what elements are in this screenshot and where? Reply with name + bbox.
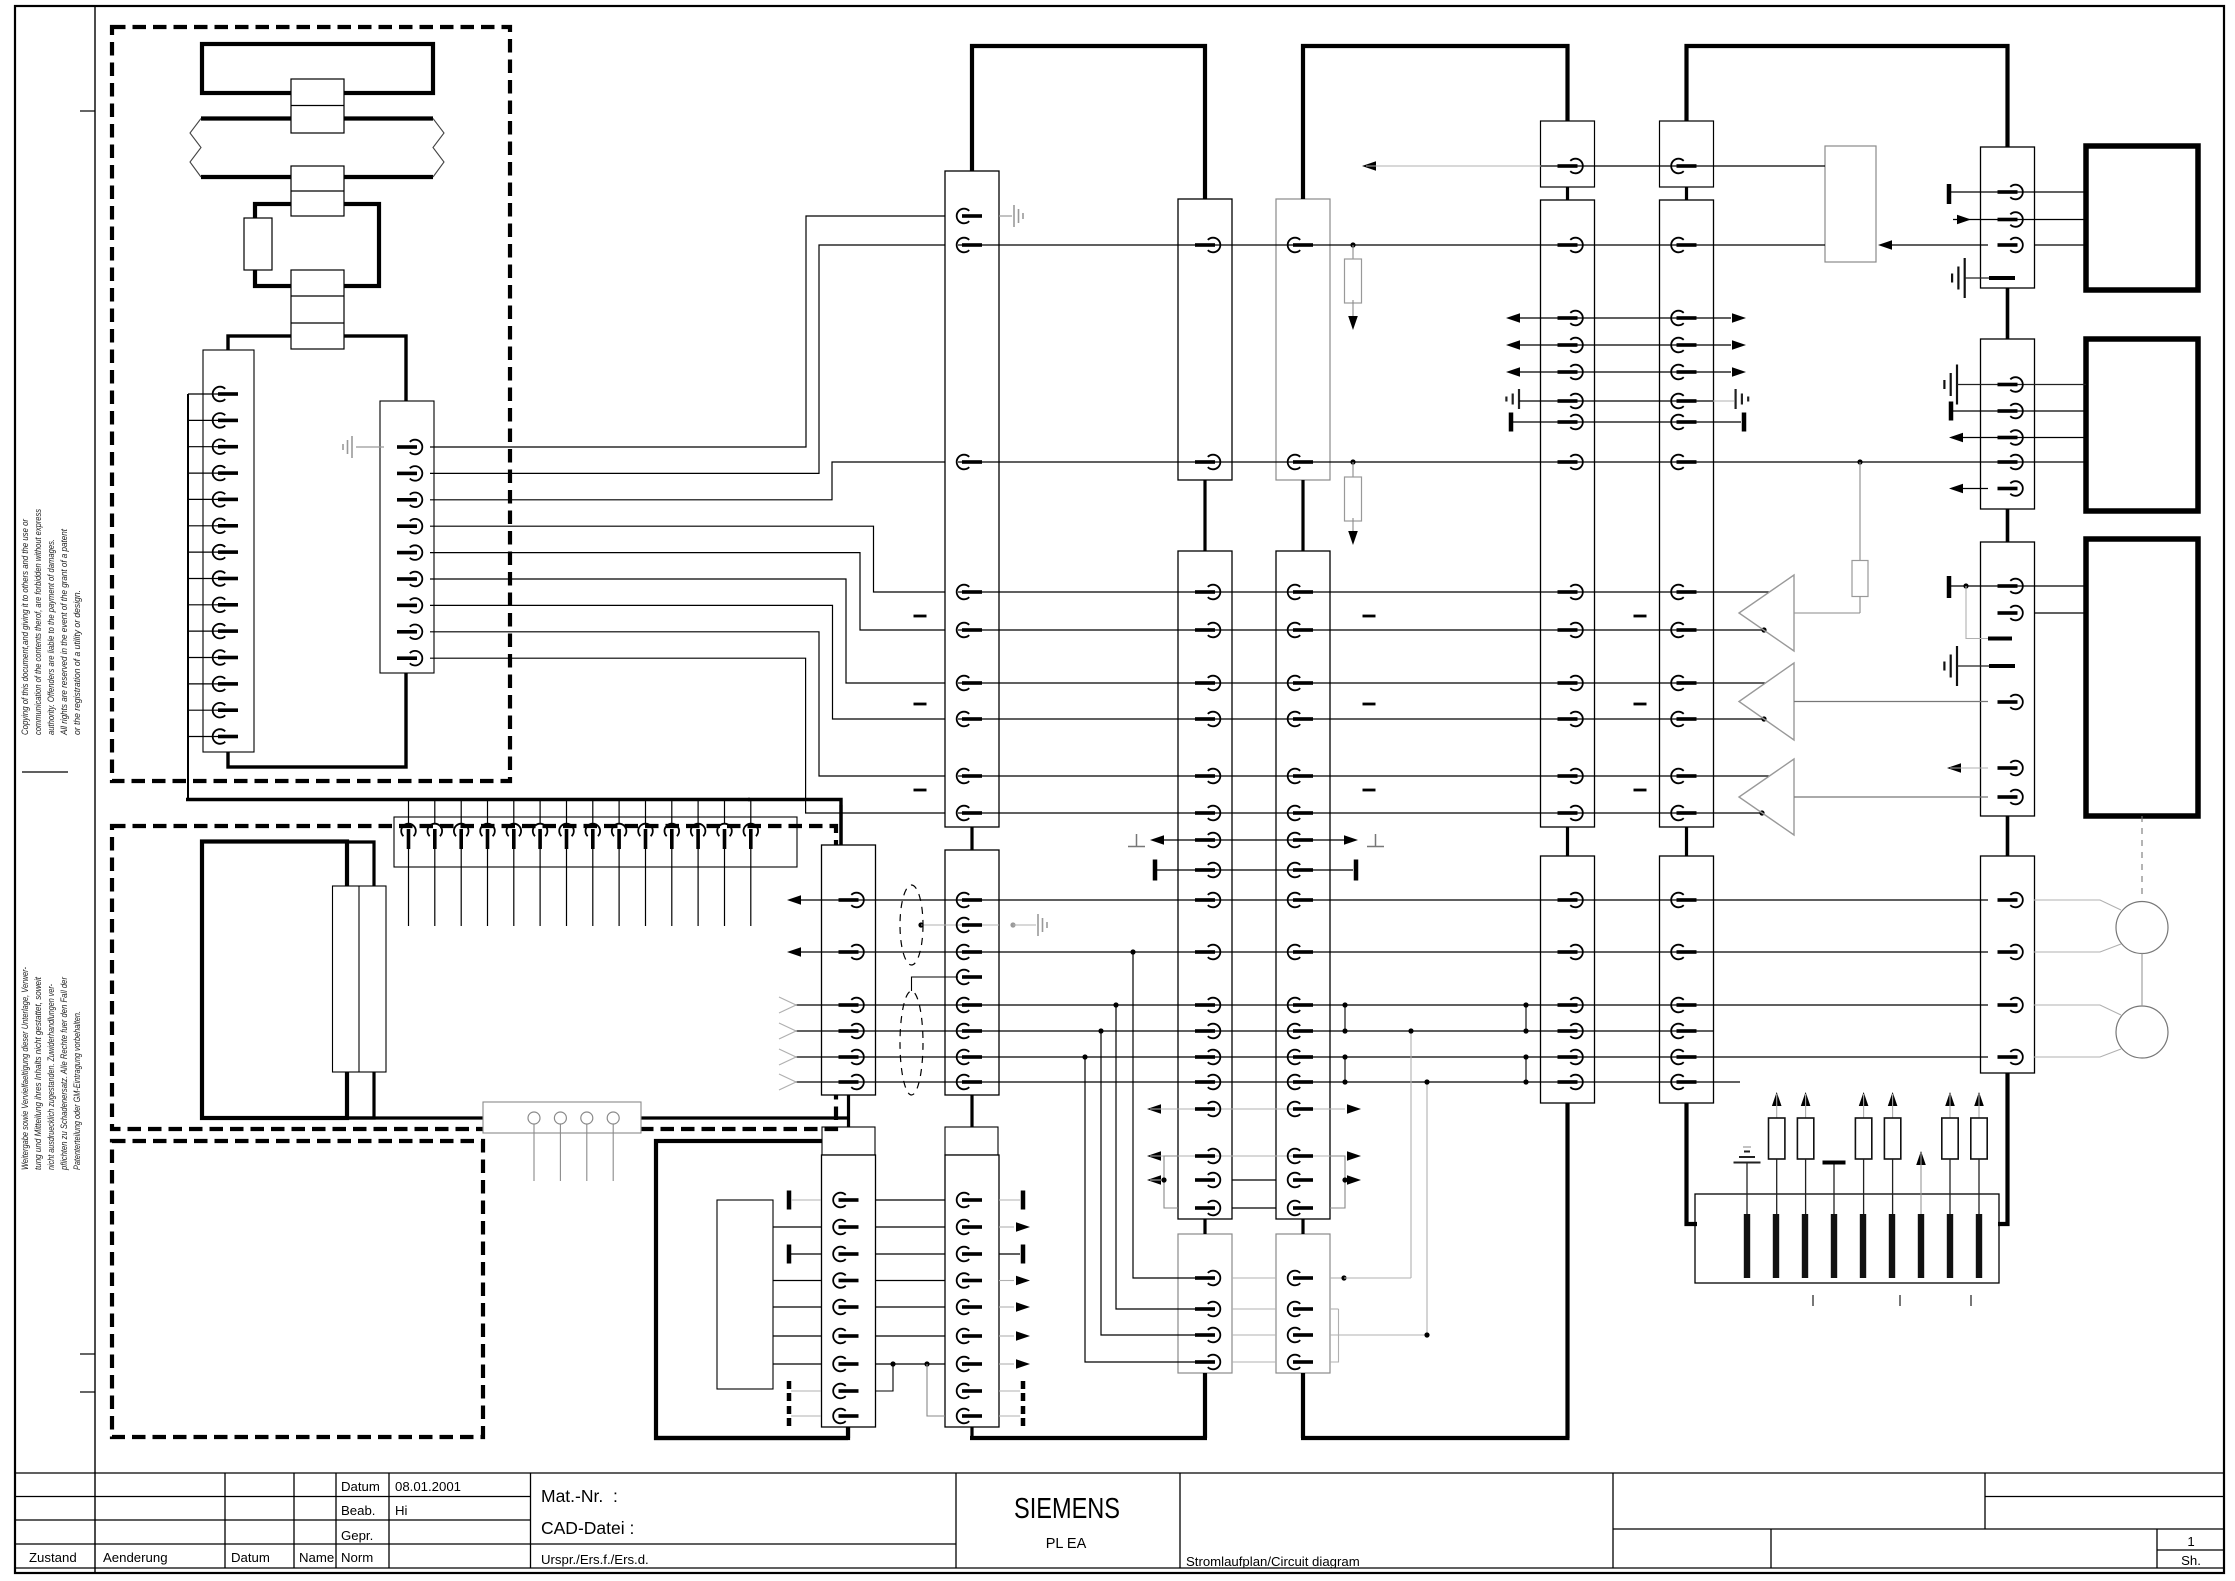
pin X20 [957, 676, 982, 691]
wire [875, 1335, 945, 1337]
amplifier V2 [1739, 663, 1794, 740]
wire row 245 [958, 244, 1825, 246]
wire row 1180 [1147, 1175, 1161, 1185]
pin X50 [1558, 806, 1583, 821]
bar mark [1947, 576, 1952, 598]
pin X53 [1671, 893, 1696, 908]
pin X62 [1998, 579, 2023, 594]
contact mark [1918, 1214, 1924, 1278]
pin X14.4 [213, 466, 238, 481]
pin X51 [1558, 1050, 1583, 1065]
wire [430, 632, 945, 776]
pin X20 [957, 623, 982, 638]
pin X62 plain [1988, 637, 2012, 641]
signal box A5 [1825, 146, 1876, 262]
svg-text:Datum: Datum [231, 1550, 270, 1565]
motor M2 [2116, 1006, 2168, 1058]
svg-text:Zustand: Zustand [29, 1550, 77, 1565]
fold tick [80, 110, 95, 112]
bar mark [1949, 402, 1954, 421]
pin X16.3 [460, 801, 462, 824]
pin X43 [1288, 455, 1313, 470]
pin X53 [1671, 945, 1696, 960]
connector X41 [1178, 551, 1232, 1219]
pin X52 [1671, 365, 1696, 380]
jumper [1525, 1057, 1527, 1082]
pin X14.6 [213, 519, 238, 534]
pin X15.1 [397, 440, 422, 455]
svg-text:CAD-Datei :: CAD-Datei : [541, 1518, 634, 1538]
pin X62 plain2 [1989, 664, 2015, 668]
pin X41 [1195, 863, 1220, 878]
device B1 [2086, 146, 2198, 290]
pin X44 [1288, 1075, 1313, 1090]
wire [188, 498, 218, 500]
pin X50 [1558, 365, 1583, 380]
svg-text:PL EA: PL EA [1046, 1536, 1087, 1552]
pin X21 [957, 945, 982, 960]
terminal box X70 [1695, 1194, 1999, 1283]
pin X16.13 [724, 801, 726, 824]
contact mark [1889, 1214, 1895, 1278]
device B3 [2086, 539, 2198, 816]
pin X42 [1195, 1355, 1220, 1370]
loop left [1164, 1156, 1178, 1208]
ground at X15.1 [343, 436, 352, 458]
pin X14.10 [213, 624, 238, 639]
pin X14.11 [213, 650, 238, 665]
drop wire [1426, 1082, 1428, 1335]
wire io row [1506, 367, 1520, 377]
link X30-X31 [847, 1095, 850, 1127]
drop wire [1116, 1005, 1205, 1309]
pin X60 [1998, 212, 2023, 227]
pin X50 [1558, 712, 1583, 727]
pin X63 [1998, 1050, 2023, 1065]
wire [612, 1124, 614, 1181]
pin X52 [1671, 806, 1696, 821]
pin X44 [1288, 1201, 1313, 1216]
cabinet enclosure E1 (dashed) [112, 27, 510, 781]
loop right [1330, 1156, 1345, 1208]
pin X41 [1195, 623, 1220, 638]
frame bus B [1303, 46, 1568, 199]
net stubs [914, 615, 927, 618]
pin X53 [1671, 998, 1696, 1013]
arrow out [1949, 433, 1963, 443]
pin X50 [1558, 585, 1583, 600]
connector X43 [1276, 199, 1330, 480]
wire [875, 1199, 945, 1201]
pin X41 [1195, 1102, 1220, 1117]
pin X41 [1195, 945, 1220, 960]
fold tick [80, 1391, 95, 1393]
pin X16.12 [697, 801, 699, 824]
bottom bus [654, 1436, 848, 1440]
pin X44 [1288, 1149, 1313, 1164]
resistor R1 [1350, 242, 1355, 247]
pin X44 [1288, 1102, 1313, 1117]
pin X52 [1671, 676, 1696, 691]
amplifier V1 [1739, 575, 1794, 651]
pin X62 [1998, 695, 2023, 710]
pin X53 [1671, 1050, 1696, 1065]
pin X51 [1558, 945, 1583, 960]
frame bus C [1687, 46, 2008, 147]
pin X52a [1671, 159, 1696, 174]
pin X61 [1998, 481, 2023, 496]
net stubs [1363, 615, 1376, 618]
wire row 1082 [795, 1081, 1740, 1083]
wire thick [347, 842, 374, 886]
pin X14.5 [213, 492, 238, 507]
svg-text:SIEMENS: SIEMENS [1014, 1493, 1120, 1525]
link X50-X51 [1566, 827, 1569, 856]
pin X41 [1195, 1024, 1220, 1039]
connector X63 [1981, 856, 2035, 1073]
wire row 952 [790, 951, 1988, 953]
pin X44 [1288, 863, 1313, 878]
pin X41 [1195, 998, 1220, 1013]
device unit A6 [656, 1141, 848, 1438]
pin X60 [1998, 185, 2023, 200]
pin X16.4 [487, 801, 489, 824]
connector X62 [1981, 542, 2035, 816]
wire [188, 630, 218, 632]
pin X44 [1288, 1173, 1313, 1188]
drop wire [1410, 1031, 1412, 1278]
pin X44 [1288, 945, 1313, 960]
pin X50a [1558, 159, 1583, 174]
connector X44 [1276, 551, 1330, 1219]
pin X44 [1288, 585, 1313, 600]
pin strip X15 [380, 401, 434, 673]
pin X31 [833, 1273, 858, 1288]
pin X52 [1671, 585, 1696, 600]
link X21-X22 [970, 1095, 973, 1127]
pin X63 [1998, 945, 2023, 960]
pin X21 [957, 1075, 982, 1090]
link X22 bottom [970, 1427, 973, 1438]
arrow out [787, 895, 801, 905]
pin X61 [1998, 455, 2023, 470]
ground at X20.1 [1014, 205, 1023, 227]
gray row 1362 [1232, 1361, 1276, 1363]
wire [430, 216, 945, 447]
pin X52 [1671, 769, 1696, 784]
pin X30 [839, 1075, 864, 1090]
pin X41 [1195, 1173, 1220, 1188]
resistor R3 [1857, 459, 1862, 464]
pin X52 [1671, 394, 1696, 409]
pin X40 [1195, 238, 1220, 253]
pin X45 [1288, 1355, 1313, 1370]
pin X22 [957, 1329, 982, 1344]
device B2 [2086, 339, 2198, 511]
pin X14.13 [213, 703, 238, 718]
pin X20 [957, 238, 982, 253]
pin X16.1 [408, 801, 410, 824]
drop wire [1085, 1057, 1205, 1362]
pin X41 [1195, 893, 1220, 908]
svg-text:or the registration of a utili: or the registration of a utility or desi… [72, 590, 83, 735]
pin X50 [1558, 455, 1583, 470]
wire [188, 657, 218, 659]
link X30 top [839, 805, 842, 845]
pin X21 [957, 1024, 982, 1039]
link X60-X61 [2006, 288, 2010, 339]
pin X16.8 [592, 801, 594, 824]
svg-text:pflichten zu Schadenersatz. Al: pflichten zu Schadenersatz. Alle Rechte … [59, 976, 70, 1170]
varistor [1974, 1092, 1984, 1106]
pin X44 [1288, 623, 1313, 638]
wire [188, 472, 218, 474]
pin X31 [833, 1384, 858, 1399]
contact mark [1860, 1214, 1866, 1278]
pin X52 [1671, 338, 1696, 353]
wire row 1156 [1147, 1151, 1161, 1161]
frame bus A [972, 46, 1205, 199]
wire io row [1506, 313, 1520, 323]
chevron in [779, 997, 796, 1013]
ground X60 [1952, 258, 1965, 298]
wire io row [1506, 340, 1520, 350]
pin X42 [1195, 1302, 1220, 1317]
link X52a-X52 [1685, 187, 1688, 200]
pin X15.6 [397, 572, 422, 587]
svg-text:Name: Name [299, 1550, 334, 1565]
bus rail corner [748, 800, 841, 846]
pin X22 [957, 1247, 982, 1262]
pin X44 [1288, 769, 1313, 784]
wire amp2 out [1794, 701, 1988, 703]
arrow out [1947, 763, 1961, 773]
svg-text:Gepr.: Gepr. [341, 1528, 373, 1543]
connector X45 (gray) [1276, 1234, 1330, 1373]
pin X41 [1195, 1050, 1220, 1065]
terminal pair X17 [333, 886, 387, 1072]
pin X61 [1998, 377, 2023, 392]
wire [430, 553, 945, 630]
pin X52 [1671, 623, 1696, 638]
pin X20 [957, 712, 982, 727]
cabinet enclosure E2 (dashed) [112, 826, 836, 1129]
pin X20 [957, 209, 982, 224]
margin column line [94, 6, 96, 1573]
gray row 1309 [1232, 1308, 1276, 1310]
pin X41 [1195, 712, 1220, 727]
link X52-X53 [1685, 827, 1688, 856]
wire [773, 1226, 821, 1228]
wire row 462 [958, 461, 2086, 463]
copyright note (german) [20, 967, 83, 1171]
arrow out [787, 947, 801, 957]
pin X16.11 [671, 801, 673, 824]
bus rail [186, 798, 750, 801]
terminal block X11 [291, 79, 344, 133]
pin X15.7 [397, 598, 422, 613]
wire [875, 1226, 945, 1228]
pin X21 [957, 998, 982, 1013]
contact mark [1831, 1214, 1837, 1278]
pin X50 [1558, 623, 1583, 638]
wire [533, 1124, 535, 1181]
wire [430, 579, 945, 683]
pin X20 [957, 585, 982, 600]
contact mark [1947, 1214, 1953, 1278]
svg-text:Sh.: Sh. [2181, 1553, 2201, 1568]
pin X62 [1998, 606, 2023, 621]
pin X16.10 [645, 801, 647, 824]
pin X31 [833, 1247, 858, 1262]
wire [773, 1306, 821, 1308]
auxiliary contact [244, 218, 272, 270]
pin X45 [1288, 1271, 1313, 1286]
shield ground [1010, 922, 1015, 927]
varistor [1888, 1092, 1898, 1106]
link X62-X63 [2006, 816, 2010, 856]
pin X41 [1195, 1149, 1220, 1164]
pin X44 [1288, 998, 1313, 1013]
pin X51 [1558, 1024, 1583, 1039]
pin X42 [1195, 1328, 1220, 1343]
wire [773, 1335, 821, 1337]
pin X50 [1558, 238, 1583, 253]
pin X31 [833, 1329, 858, 1344]
wire to M2 [2034, 1005, 2121, 1015]
link X45 bottom [1301, 1373, 1305, 1438]
pin X21 [957, 1050, 982, 1065]
pin X41 [1195, 769, 1220, 784]
pin strip X14 [203, 350, 254, 752]
svg-text:Aenderung: Aenderung [103, 1550, 168, 1565]
bar mark [787, 1245, 792, 1264]
pin X22 [957, 1384, 982, 1399]
gray jumper [1330, 1309, 1339, 1362]
pin X16.9 [618, 801, 620, 824]
pin X14.12 [213, 677, 238, 692]
pin X41 [1195, 676, 1220, 691]
wire row 1208 [1232, 1207, 1276, 1209]
svg-text:nicht ausdruecklich zugestande: nicht ausdruecklich zugestanden. Zuwider… [46, 984, 57, 1170]
svg-text:1: 1 [2187, 1534, 2194, 1549]
pin X44 [1288, 676, 1313, 691]
connector X30 [822, 845, 876, 1095]
pin X21 [957, 893, 982, 908]
wire [188, 709, 218, 711]
pin X52 [1671, 415, 1696, 430]
tick marks [1812, 1295, 1814, 1306]
fold tick [80, 1353, 95, 1355]
net stubs [1634, 615, 1647, 618]
pin X41 [1195, 806, 1220, 821]
cabinet enclosure E3 (dashed) [112, 1141, 483, 1437]
jumper [1344, 1005, 1346, 1031]
pin X44 [1288, 833, 1313, 848]
pin X30 [839, 945, 864, 960]
motor M1 [2116, 902, 2168, 954]
pin X52 [1671, 455, 1696, 470]
pin X40 [1195, 455, 1220, 470]
wire row [958, 682, 1765, 684]
chevron in [779, 1074, 796, 1090]
jumper [1525, 1005, 1527, 1031]
pin X14.2 [213, 413, 238, 428]
wire [559, 1124, 561, 1181]
link X43-X44 [1301, 480, 1304, 551]
wire [188, 446, 218, 448]
wire row 245 arrowed [1878, 240, 1892, 250]
bar mark [999, 1199, 1020, 1201]
pin X16.7 [566, 801, 568, 824]
connector X42 (gray) [1178, 1234, 1232, 1373]
varistor [1945, 1092, 1955, 1106]
wire [430, 526, 945, 592]
pin X61 [1998, 430, 2023, 445]
contact mark [1802, 1214, 1808, 1278]
drop wire [1133, 952, 1205, 1278]
terminal block X12 [291, 166, 344, 216]
pin X30 [839, 1050, 864, 1065]
connector head X50a [1541, 121, 1595, 187]
pin X22 [957, 1220, 982, 1235]
pin X50 [1558, 676, 1583, 691]
switch unit Q1 [255, 204, 379, 286]
bottom bus [970, 1436, 1207, 1440]
wire [188, 736, 218, 738]
power rail K1 [202, 44, 433, 93]
terminal tab X22t [945, 1127, 998, 1155]
pin X31 [833, 1300, 858, 1315]
pin X45 [1288, 1302, 1313, 1317]
wire row 216 [999, 215, 1012, 217]
pin X14.3 [213, 439, 238, 454]
gray row 1335 [1232, 1334, 1276, 1336]
connector X53 [1660, 856, 1714, 1103]
pin X51 [1558, 1075, 1583, 1090]
link X41-X42 [1203, 1219, 1206, 1234]
sensor contact 1 [528, 1112, 540, 1124]
pin X44 [1288, 806, 1313, 821]
terminal tab X31t [822, 1127, 875, 1155]
pin X52 [1671, 238, 1696, 253]
wire [188, 419, 218, 421]
wire [2034, 244, 2086, 246]
wire thick [347, 1116, 849, 1119]
sensor connector X18 [483, 1102, 641, 1133]
shielded pair [900, 885, 923, 965]
bar mark [1947, 184, 1952, 204]
bar mark dashed [999, 1390, 1020, 1392]
wire [430, 462, 945, 500]
wire [188, 683, 218, 685]
svg-text:Stromlaufplan/Circuit diagram: Stromlaufplan/Circuit diagram [1186, 1554, 1360, 1569]
arrow out [999, 1280, 1014, 1282]
pin X22 [957, 1193, 982, 1208]
connector X50 [1541, 200, 1595, 827]
wire row 977 [912, 977, 959, 991]
wire [188, 604, 218, 606]
pin X44 [1288, 712, 1313, 727]
fold tick [22, 771, 68, 773]
pin X22 [957, 1357, 982, 1372]
wire row 900 [790, 899, 1988, 901]
svg-text:08.01.2001: 08.01.2001 [395, 1479, 461, 1494]
controller unit A1 [228, 336, 406, 767]
link X50a-X50 [1566, 187, 1569, 200]
pin X30 [839, 1024, 864, 1039]
wire [430, 658, 945, 813]
